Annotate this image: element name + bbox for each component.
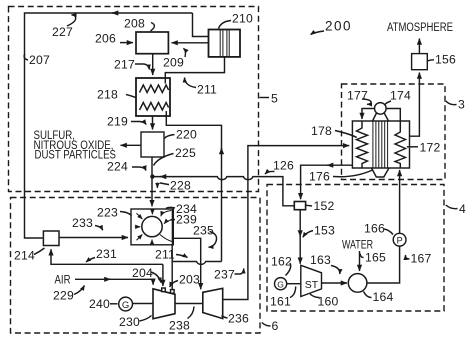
coil 172 economizer [395,121,406,168]
wire pump P up to economizer [399,170,401,233]
label 217 [114,58,150,72]
label 207 [24,53,50,67]
wire from top line down into unit 210 [193,13,209,37]
svg-text:161: 161 [270,295,291,309]
svg-text:210: 210 [232,12,253,26]
label 176 [309,170,373,184]
svg-text:209: 209 [163,56,184,70]
wire compressor discharge riser to combustor [171,245,173,289]
svg-text:P: P [397,235,403,245]
svg-text:211: 211 [155,248,175,262]
label 208 [124,17,154,32]
svg-text:162: 162 [271,255,292,269]
label 152 [306,199,334,213]
svg-text:204: 204 [132,266,153,280]
label 160 [310,294,338,309]
svg-text:217: 217 [114,58,135,72]
svg-text:231: 231 [96,247,117,261]
wire shaft G to compressor [132,303,153,305]
svg-text:160: 160 [318,295,339,309]
svg-text:218: 218 [97,88,118,102]
dashed enclosure 4 [267,185,444,312]
label 236 [222,312,249,326]
label 228 [157,179,191,193]
svg-text:4: 4 [459,202,466,216]
unit 208 mixer box [136,32,168,54]
unit 214 small box [43,231,59,246]
svg-text:219: 219 [107,115,128,129]
label 164 [364,290,394,304]
wire 235 combustor outlet to turbine [174,238,201,289]
label 153 [303,224,335,238]
svg-text:200: 200 [325,19,352,34]
label 237 [214,268,244,282]
wire 209 from 210 to 208 [172,42,209,44]
svg-text:240: 240 [89,297,110,311]
wire HRSG outlet to filter 156 [410,73,420,137]
label 238 [169,307,194,333]
svg-text:206: 206 [95,32,116,46]
label 165 [360,251,386,265]
unit 152 valve box [294,202,305,210]
svg-text:ST: ST [305,279,319,291]
wire 153 from 152 down to steam turbine [299,210,301,264]
svg-text:214: 214 [14,249,35,263]
label 6 [262,319,279,333]
dashed enclosure 5 [9,7,259,192]
svg-text:235: 235 [193,224,214,238]
svg-text:3: 3 [458,98,465,112]
wire 156 to atmosphere [418,39,420,54]
svg-text:238: 238 [169,319,190,333]
wire flow arrow up on riser 211 [221,148,223,154]
label 177 [347,89,371,105]
label 204 [132,266,161,283]
label 218 [97,88,136,102]
svg-text:6: 6 [272,319,279,333]
wire 176 outlet from HRSG to 152 [301,165,353,199]
label 211 top [185,78,218,97]
label 223 [97,206,132,220]
svg-text:ATMOSPHERE: ATMOSPHERE [387,22,453,34]
svg-text:207: 207 [29,53,50,67]
svg-text:AIR: AIR [55,275,71,287]
wire drum right leg [386,109,400,122]
node junction dot [150,174,154,178]
label 211 bottom [155,248,188,262]
svg-text:163: 163 [310,253,331,267]
svg-text:156: 156 [435,53,456,67]
unit 210 striped unit [209,30,241,57]
wire WATER feed to condenser [359,251,361,271]
unit 230 compressor [153,288,175,319]
label 163 [310,253,340,274]
unit 236 gas turbine [203,288,223,318]
svg-text:152: 152 [314,199,335,213]
svg-text:178: 178 [311,124,332,138]
wire 219 from 218 down to 220 [152,116,154,130]
svg-text:224: 224 [107,160,128,174]
svg-text:G: G [122,300,129,311]
wire flow arrow on 153 [299,232,301,237]
label 230 [119,315,152,329]
label 225 [154,146,196,166]
label 227 [52,15,76,39]
wire shaft compressor to turbine [175,303,203,305]
label 3 [446,98,465,112]
svg-text:227: 227 [52,25,73,39]
label 209 [163,48,186,69]
label 126 [265,159,294,175]
wire down into port 204 [162,264,164,286]
label 240 [89,297,118,311]
wire ST to condenser [322,282,348,284]
unit 240 generator G [119,297,133,311]
label 210 [219,12,253,29]
svg-text:237: 237 [214,268,235,282]
coil 178 evaporator [357,121,368,168]
unit 223 combustor [131,209,173,245]
unit 220 separator box [141,132,164,157]
label 178 [311,124,357,138]
label 200 [311,19,352,35]
wire 233 from 214 to combustor [59,237,128,239]
label 166 [364,222,393,236]
label 203 [170,273,200,288]
label 156 [428,53,456,67]
wire AIR intake [75,279,153,285]
svg-text:236: 236 [228,312,249,326]
label 174 [385,89,411,105]
wire branch to riser with hop over 201 [172,262,221,265]
wire flow arrow on AIR line [106,278,111,280]
wire condenser to pump P [367,246,400,283]
label 214 [14,248,45,263]
wire drum left leg 177 [362,109,375,120]
svg-text:211: 211 [197,83,217,97]
wire 237 turbine exhaust to HRSG [223,146,350,300]
svg-text:172: 172 [420,141,441,155]
svg-text:153: 153 [314,224,335,238]
unit 160 steam turbine ST [301,265,322,296]
svg-text:225: 225 [175,146,196,160]
wire flow arrow at junction on 126 line [160,176,162,178]
wire 224 from 220 to junction to combustor [151,157,153,206]
wire recirculation line 227/207 top and left [25,13,193,238]
label 233 [72,216,103,230]
svg-text:G: G [277,279,284,289]
svg-text:166: 166 [364,222,385,236]
label 224 [107,160,146,174]
svg-text:174: 174 [390,89,411,103]
svg-text:DUST PARTICLES: DUST PARTICLES [35,150,117,162]
svg-text:164: 164 [373,290,394,304]
label 5 [260,92,279,106]
svg-text:165: 165 [365,251,386,265]
wire coil bottom of 218 to riser [166,116,221,262]
unit 156 filter box [412,54,428,70]
wire flow arrow on line 227 [112,12,118,14]
svg-text:228: 228 [170,179,191,193]
svg-text:167: 167 [411,252,432,266]
label 235 [193,224,217,248]
label 167 [406,252,432,266]
svg-text:176: 176 [309,170,330,184]
wire shaft G2 to ST [287,283,301,285]
unit 161 generator G2 [275,278,287,290]
svg-text:230: 230 [119,315,140,329]
dashed enclosure 6 [11,198,261,334]
label 239 [171,213,197,227]
wire 220 outlet to sulfur text [121,144,142,146]
label 229 [53,286,85,303]
label 4 [446,202,466,216]
svg-text:229: 229 [53,289,74,303]
svg-text:5: 5 [271,92,278,106]
label sulfur text [34,130,117,162]
label 231 [86,247,117,262]
unit 166 pump P [393,233,406,246]
unit 218 heat exchanger [136,78,170,116]
unit HRSG boiler 170 [352,121,409,177]
svg-text:233: 233 [72,216,93,230]
svg-text:220: 220 [176,128,197,142]
svg-text:177: 177 [347,89,368,103]
svg-text:203: 203 [179,273,200,287]
label 219 [107,115,146,129]
label 162 [271,255,292,276]
label 172 [407,141,441,155]
svg-text:126: 126 [273,159,294,173]
label 161 [270,287,296,309]
label 234 [166,202,197,216]
label 220 [164,128,197,142]
wire 231 return line into 214 [51,249,163,264]
wire 217 from 208 down to 218 [152,54,154,75]
wire flow arrow left on 176 line [327,164,331,166]
unit 164 condenser [348,274,367,293]
wire 206 feed into 208 [120,42,133,44]
svg-text:223: 223 [97,206,118,220]
wire from 210 bottom to coil top of 218 [165,57,224,78]
wire 126 line with hops to 152 [152,177,294,206]
unit 174 steam drum [373,103,389,121]
dashed enclosure 3 [342,84,446,180]
svg-text:208: 208 [124,17,145,31]
